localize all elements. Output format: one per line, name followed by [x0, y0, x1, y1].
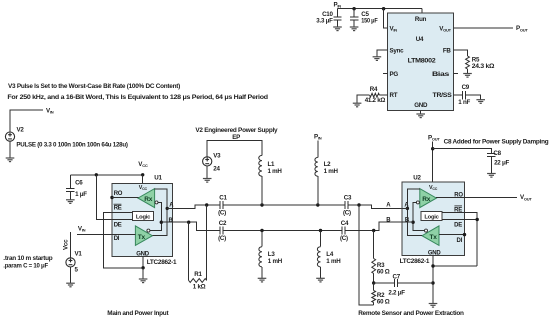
svg-text:TR/SS: TR/SS	[433, 92, 452, 99]
wire V3 to ground	[206, 166, 208, 179]
junction A internal U1	[166, 207, 169, 210]
junction VCC pin stub	[141, 173, 144, 176]
svg-text:GND: GND	[428, 251, 442, 257]
wire R4 to ground	[357, 95, 370, 103]
logic block of U1	[133, 212, 154, 221]
svg-text:C8 Added for Power Supply Damp: C8 Added for Power Supply Damping	[444, 139, 549, 146]
wire A bus to U2	[348, 205, 402, 208]
ground V1	[66, 283, 75, 287]
wire DE tie inside U1	[112, 219, 133, 221]
junction RO pin	[110, 196, 113, 199]
svg-text:RO: RO	[114, 191, 123, 197]
transceiver U2 body	[402, 182, 465, 256]
svg-text:C3: C3	[344, 194, 352, 201]
wire R3 to node	[373, 274, 375, 284]
svg-text:Tx: Tx	[138, 234, 146, 241]
ground R4	[353, 103, 362, 107]
svg-text:VIN: VIN	[46, 107, 54, 114]
wire node to C7	[374, 282, 395, 284]
wire V_IN to DI	[77, 234, 112, 236]
resistor R2	[372, 291, 376, 303]
wire Rx bubble to B node	[150, 202, 161, 230]
svg-text:DE: DE	[454, 222, 462, 228]
wire A bus after C1	[223, 204, 345, 206]
svg-text:Rx: Rx	[422, 196, 430, 203]
wire RE/DE to gnd net U2	[433, 265, 477, 267]
wire C6 to ground	[69, 192, 71, 200]
junction U2 gnd c7	[431, 281, 434, 284]
capacitor C8	[487, 154, 495, 157]
svg-text:V2: V2	[17, 127, 25, 134]
wire V_IN stub from V2	[10, 110, 43, 132]
svg-text:LTC2862-1: LTC2862-1	[147, 259, 177, 266]
pin stub PG	[383, 73, 387, 75]
svg-text:C1: C1	[219, 194, 227, 201]
ground V2	[6, 158, 15, 162]
junction A-term tap	[357, 203, 360, 206]
svg-text:C7: C7	[393, 273, 401, 280]
svg-text:150 μF: 150 μF	[361, 17, 378, 24]
svg-text:V3: V3	[213, 153, 221, 160]
svg-text:R4: R4	[370, 86, 378, 93]
wire U2 GND stub	[432, 256, 434, 304]
wire Rx output to RO	[112, 197, 138, 199]
svg-text:1 nF: 1 nF	[458, 99, 470, 106]
wire DE tie U2	[442, 219, 477, 221]
wire VCC stub into U1	[142, 175, 144, 184]
svg-text:C4: C4	[341, 220, 349, 227]
svg-text:FB: FB	[443, 48, 452, 55]
svg-text:60 Ω: 60 Ω	[377, 269, 390, 276]
svg-text:Vcc: Vcc	[63, 239, 70, 250]
voltage source V2	[5, 132, 14, 141]
wire C10 stem	[337, 9, 339, 17]
wire P_OUT down to U2 VCC	[432, 142, 434, 182]
resistor R1 right leg	[206, 205, 208, 281]
ground C10	[333, 27, 342, 31]
svg-text:V3 Pulse Is Set to the Worst-C: V3 Pulse Is Set to the Worst-Case Bit Ra…	[8, 83, 180, 90]
svg-text:C9: C9	[462, 84, 470, 91]
wire C5 to ground	[353, 20, 355, 27]
junction B internal U2	[411, 221, 414, 224]
pin stub Bias	[454, 73, 458, 75]
wire R2 from node	[373, 283, 375, 291]
inductor L1	[259, 155, 262, 176]
resistor R1 left leg	[188, 222, 190, 280]
wire V1 to ground	[70, 267, 72, 284]
wire V2 to ground	[9, 141, 11, 158]
svg-text:Logic: Logic	[136, 214, 151, 220]
junction C5 top	[352, 7, 355, 10]
svg-text:U2: U2	[413, 175, 421, 182]
junction DI pin U2	[463, 233, 466, 236]
capacitor C6	[66, 189, 74, 192]
voltage source V1	[66, 258, 75, 267]
capacitor C10	[333, 17, 341, 20]
junction R3/R2/C7	[372, 281, 375, 284]
driver amp Tx of U1	[135, 226, 152, 246]
enable bubble on Rx U1	[155, 201, 158, 204]
svg-text:PIN: PIN	[314, 134, 322, 141]
wire DE tie to VCC (outside)	[96, 175, 112, 220]
wire B bus to U2	[345, 222, 402, 230]
wire C5 stem	[353, 9, 355, 17]
wire R2 bottom to A-term	[373, 303, 375, 306]
capacitor C2	[220, 226, 223, 234]
wire L3 from bus	[261, 231, 263, 247]
wire VCC rail	[70, 174, 142, 176]
junction L1 bottom	[260, 203, 263, 206]
svg-text:LTM8002: LTM8002	[408, 57, 437, 64]
wire B from U1 to bus	[172, 222, 219, 230]
svg-text:V2 Engineered Power Supply: V2 Engineered Power Supply	[195, 127, 278, 134]
svg-text:RT: RT	[390, 92, 398, 99]
wire to C8	[433, 149, 492, 154]
svg-text:GND: GND	[414, 102, 428, 109]
svg-text:41.2 kΩ: 41.2 kΩ	[365, 97, 386, 104]
wire C8 to ground	[490, 157, 492, 174]
junction P_OUT / C8	[431, 147, 434, 150]
svg-text:Logic: Logic	[424, 214, 439, 220]
svg-text:DI: DI	[114, 236, 120, 242]
svg-text:A: A	[386, 203, 391, 209]
wire L4 from bus	[320, 231, 322, 247]
wire Rx output to RO U2	[436, 197, 464, 199]
svg-text:VCC: VCC	[138, 161, 148, 168]
svg-text:Sync: Sync	[390, 48, 405, 55]
wire B out of U1	[161, 221, 172, 223]
wire L3 to ground	[261, 267, 263, 278]
wire A out of U1	[167, 207, 172, 209]
wire TR/SS to C9	[454, 94, 463, 96]
wire B tap down to R3	[373, 231, 375, 259]
svg-text:LTC2862-1: LTC2862-1	[400, 258, 430, 265]
junction L3 top	[260, 229, 263, 232]
wire Run from rail into U4 top	[421, 9, 423, 13]
junction U1 gnd	[141, 266, 144, 269]
wire A into U2	[402, 207, 407, 209]
ground U1	[139, 279, 148, 283]
svg-text:.tran 10 m startup: .tran 10 m startup	[3, 255, 52, 262]
svg-text:R1: R1	[194, 271, 202, 278]
wire R5 to ground	[467, 69, 469, 74]
ground C9	[476, 100, 485, 104]
enable bubble on Rx U2	[416, 201, 419, 204]
ground C5	[350, 27, 359, 31]
wire DI internal U2	[439, 234, 465, 236]
wire L1 to bus	[261, 176, 263, 205]
wire B into U2	[402, 221, 413, 223]
svg-text:1 mH: 1 mH	[324, 168, 339, 175]
svg-text:PULSE (0 3.3 0 100n 100n 100n: PULSE (0 3.3 0 100n 100n 100n 64u 128u)	[16, 142, 128, 149]
svg-text:A: A	[169, 203, 174, 209]
junction VCC-DE tap	[95, 173, 98, 176]
svg-text:EP: EP	[232, 134, 240, 141]
junction B-term tap	[372, 229, 375, 232]
wire FB to R5	[454, 50, 468, 56]
wire Rx input from A node U2	[407, 189, 422, 236]
ground L3	[258, 278, 267, 282]
svg-text:Tx: Tx	[430, 234, 438, 241]
svg-text:2.2 μF: 2.2 μF	[388, 290, 405, 297]
capacitor C5	[350, 17, 358, 20]
wire P_IN horizontal rail	[338, 8, 422, 10]
svg-text:PG: PG	[390, 71, 399, 78]
wire P_IN to L2	[317, 141, 319, 158]
svg-text:60 Ω: 60 Ω	[377, 299, 390, 306]
wire A-term vertical	[359, 205, 374, 305]
svg-text:1 kΩ: 1 kΩ	[193, 284, 206, 291]
capacitor C7	[395, 279, 398, 287]
svg-text:POUT: POUT	[516, 25, 528, 32]
svg-text:1 μF: 1 μF	[75, 191, 87, 198]
svg-text:POUT: POUT	[428, 135, 440, 142]
resistor R1	[189, 279, 207, 283]
svg-text:C8: C8	[493, 150, 501, 157]
wire C6 stem	[69, 175, 71, 189]
wire U4 GND stub	[420, 111, 422, 114]
ground V3	[203, 179, 212, 183]
junction L4 top	[319, 229, 322, 232]
svg-text:22 μF: 22 μF	[494, 160, 509, 167]
junction U2 gnd re/de	[431, 264, 434, 267]
svg-text:.param C = 10 μF: .param C = 10 μF	[3, 263, 48, 270]
svg-text:24.3 kΩ: 24.3 kΩ	[472, 63, 495, 70]
svg-text:For 250 kHz, and a 16-Bit Word: For 250 kHz, and a 16-Bit Word, This Is …	[7, 94, 268, 101]
svg-text:(C): (C)	[340, 235, 348, 242]
svg-text:DI: DI	[457, 238, 463, 244]
resistor R4	[370, 93, 380, 97]
junction RE/DE tie U2	[476, 218, 479, 221]
wire RE tie inside U1	[112, 212, 133, 214]
wire U1 GND stub	[142, 256, 144, 267]
junction B internal U1	[160, 221, 163, 224]
svg-text:1 mH: 1 mH	[268, 258, 283, 265]
svg-text:C2: C2	[219, 220, 227, 227]
svg-text:1 mH: 1 mH	[326, 258, 341, 265]
wire C9 to ground	[466, 95, 481, 100]
svg-text:V1: V1	[75, 250, 83, 257]
junction R1 left tap	[187, 221, 190, 224]
inductor L2	[315, 157, 318, 176]
wire DI inside U1	[112, 234, 135, 236]
junction VIN drop	[382, 7, 385, 10]
wire RO to V_OUT	[465, 197, 518, 199]
capacitor C4	[342, 226, 345, 234]
svg-text:C6: C6	[75, 180, 83, 187]
module U4 LTM8002 body	[388, 13, 454, 111]
resistor R3	[372, 259, 376, 274]
inductor L4	[317, 247, 320, 267]
ground R5	[463, 74, 472, 78]
svg-text:VIN: VIN	[78, 226, 86, 233]
wire V1 to Vcc label	[70, 232, 72, 258]
ground C6	[66, 200, 75, 204]
svg-text:(C): (C)	[218, 235, 226, 242]
ground U4	[416, 114, 425, 118]
driver amp Tx of U2	[422, 226, 439, 246]
svg-text:VOUT: VOUT	[520, 194, 532, 201]
capacitor C9	[463, 91, 466, 99]
svg-text:Main and Power Input: Main and Power Input	[107, 310, 169, 317]
voltage source V3	[203, 157, 212, 166]
wire Rx bubble to B node U2	[413, 202, 424, 230]
wire RE tie U2	[442, 213, 477, 267]
ground U2	[429, 304, 438, 308]
svg-text:Bias: Bias	[432, 71, 450, 78]
svg-text:24: 24	[213, 165, 220, 172]
svg-text:DE: DE	[114, 222, 122, 228]
capacitor C1	[220, 201, 223, 209]
wire EP rail	[207, 141, 262, 157]
wire U1 gnd down	[142, 268, 144, 279]
wire RT to R4	[379, 94, 387, 96]
receiver amp Rx of U1	[138, 189, 155, 208]
svg-text:5: 5	[75, 266, 79, 273]
wire VIN drop to U4	[384, 9, 388, 28]
wire VOUT to P_OUT	[454, 27, 514, 29]
capacitor C3	[345, 201, 348, 209]
wire Rx input from A node	[152, 189, 167, 236]
ground C8	[487, 174, 496, 178]
svg-text:(C): (C)	[218, 210, 226, 217]
wire L2 to bus	[317, 176, 319, 205]
logic block of U2	[421, 212, 442, 221]
svg-text:RE: RE	[114, 206, 122, 212]
svg-text:(C): (C)	[343, 210, 351, 217]
wire C10 to ground	[337, 20, 339, 27]
svg-text:Rx: Rx	[144, 196, 152, 203]
junction A internal U2	[406, 207, 409, 210]
junction R1 right tap	[205, 203, 208, 206]
svg-text:Remote Sensor and Power Extrac: Remote Sensor and Power Extraction	[358, 310, 464, 317]
transceiver U1 body	[112, 183, 172, 256]
receiver amp Rx of U2	[420, 189, 437, 208]
svg-text:1 mH: 1 mH	[268, 168, 283, 175]
svg-text:U1: U1	[154, 175, 162, 182]
svg-text:Run: Run	[415, 16, 427, 23]
wire L4 to ground	[320, 267, 322, 278]
ground Sync	[373, 57, 382, 61]
enable bubble on Tx U2	[425, 229, 428, 232]
resistor R5	[466, 56, 470, 69]
wire A from U1 to bus	[172, 205, 219, 208]
inductor L3	[259, 247, 262, 267]
svg-text:PIN: PIN	[334, 1, 342, 8]
ground L4	[316, 278, 325, 282]
enable bubble on Tx U1	[147, 229, 150, 232]
svg-text:U4: U4	[416, 36, 424, 43]
svg-text:3.3 μF: 3.3 μF	[316, 17, 333, 24]
wire B bus after C2	[223, 230, 342, 232]
junction L2 bottom	[316, 203, 319, 206]
wire Sync to ground	[377, 50, 388, 57]
wire RE tie down to gnd net (outside)	[104, 213, 143, 268]
wire C7 to gnd net	[398, 282, 434, 284]
